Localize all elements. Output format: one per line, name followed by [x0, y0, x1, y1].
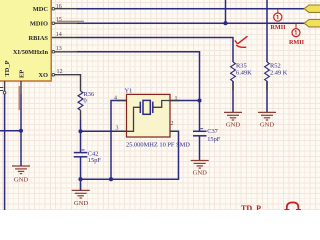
directive circle RMII (on MDC/MDIO net): [274, 9, 282, 22]
internal leads: [127, 107, 141, 131]
svg-text:25.000MHZ 10 PF SMD: 25.000MHZ 10 PF SMD: [126, 141, 190, 148]
junction node XTAL2: [78, 129, 82, 133]
svg-text:EP: EP: [18, 70, 25, 78]
svg-text:GND: GND: [74, 200, 89, 207]
svg-text:TD_P: TD_P: [241, 204, 261, 210]
crystal body: [143, 100, 150, 114]
svg-text:TD_P: TD_P: [4, 60, 11, 76]
pin EP (bottom of IC): [18, 70, 25, 94]
ground symbol (C42 rail): [72, 183, 90, 198]
svg-text:C37: C37: [207, 128, 218, 135]
resistor R36: [78, 91, 94, 120]
svg-text:0: 0: [84, 98, 87, 105]
svg-text:MDC: MDC: [33, 6, 49, 13]
svg-text:GND: GND: [14, 176, 29, 183]
resistor R52: [265, 62, 288, 81]
svg-text:RMII: RMII: [270, 24, 286, 31]
pin TD_P (bottom of IC): [0, 60, 11, 94]
capacitor C37: [193, 128, 221, 143]
pin MDIO 15: [30, 17, 77, 28]
svg-text:12: 12: [57, 69, 63, 75]
wire C42 to ground rail: [80, 157, 82, 179]
svg-text:16: 16: [56, 4, 62, 10]
svg-text:3: 3: [116, 126, 119, 132]
svg-text:GND: GND: [260, 122, 275, 129]
junction pin4 at ground rail: [109, 177, 113, 181]
differential-pair marker (bottom, clipped): [284, 202, 301, 210]
svg-text:MDIO: MDIO: [30, 21, 48, 28]
wire XO to R36: [77, 75, 81, 91]
pin XI/50MHzIn 13: [13, 46, 77, 56]
wire R36 to junction: [80, 120, 82, 153]
pin XO 12: [38, 69, 77, 79]
junction crystal pin1 node: [197, 98, 201, 102]
svg-text:R35: R35: [236, 63, 247, 70]
svg-text:GND: GND: [226, 122, 241, 129]
electrodes: [139, 102, 141, 113]
ground symbol (R52): [258, 112, 276, 120]
wire node to crystal pin3: [81, 130, 127, 132]
wire crystal pin1 to node: [170, 100, 200, 102]
svg-text:2: 2: [171, 121, 174, 127]
IC U? body (clipped at left/top): [0, 0, 51, 81]
svg-text:RBIAS: RBIAS: [28, 35, 48, 42]
ERC marker line on MDIO pin: [57, 20, 84, 22]
crystal Y1: [114, 87, 190, 148]
svg-text:14: 14: [56, 32, 62, 38]
wire left horizontal to EP net: [0, 130, 21, 132]
svg-text:2.49 K: 2.49 K: [270, 70, 288, 77]
ground symbol (R35): [224, 112, 242, 120]
junction ground rail left: [78, 177, 82, 181]
svg-text:Y1: Y1: [125, 87, 133, 94]
pin RBIAS 14: [28, 32, 77, 42]
wire riser to MDIO net (from top edge): [225, 0, 227, 23]
svg-text:15pF: 15pF: [207, 136, 221, 143]
wire RBIAS to R35: [77, 38, 233, 63]
svg-text:6.49K: 6.49K: [236, 70, 252, 77]
svg-text:15pF: 15pF: [88, 157, 102, 164]
ERC marker line on EP pin: [18, 86, 20, 110]
capacitor C42: [74, 150, 102, 164]
pin stubs: [117, 100, 127, 102]
wire TD_P pin down (clipped): [4, 94, 6, 210]
svg-text:1: 1: [175, 96, 178, 102]
junction EP net: [19, 129, 23, 133]
svg-text:15: 15: [56, 17, 62, 23]
ground symbol (C37): [191, 161, 209, 169]
svg-text:XO: XO: [38, 72, 48, 79]
port RMII-MDC (right edge, clipped): [304, 5, 320, 12]
pin MDC 16: [33, 4, 77, 13]
wire MDC to port: [77, 8, 305, 10]
svg-text:R52: R52: [270, 63, 281, 70]
wire EP pin to ground: [20, 94, 22, 166]
red no-ERC arrow marker at RBIAS corner: [235, 36, 248, 47]
resistor R35: [231, 62, 253, 81]
wire R35 to GND: [232, 81, 234, 112]
wire R52 riser from top edge: [266, 0, 268, 62]
ground symbol (EP): [12, 166, 30, 174]
wire crystal pin4 down to ground rail: [111, 101, 127, 180]
wire node down to C37: [199, 101, 201, 132]
svg-text:RMII: RMII: [289, 39, 305, 46]
svg-text:GND: GND: [193, 170, 208, 177]
svg-text:XI/50MHzIn: XI/50MHzIn: [13, 49, 49, 56]
directive circle RMII 2: [292, 24, 300, 37]
junction MDIO riser: [223, 21, 227, 25]
ground rail wire to crystal pin2: [81, 131, 179, 179]
wire MDIO to port: [77, 22, 305, 24]
svg-text:13: 13: [56, 46, 62, 52]
wire C37 to GND: [199, 136, 201, 161]
wire R52 to GND: [266, 81, 268, 112]
port RMII-MDIO (right edge, clipped): [304, 20, 320, 27]
svg-text:4: 4: [114, 95, 117, 101]
stub from rail junction to ground: [80, 179, 82, 190]
wire XI/50MHzIn to crystal node: [77, 52, 200, 101]
